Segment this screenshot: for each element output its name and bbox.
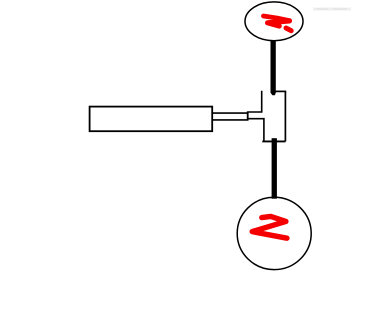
faint smudge (erased text remnant, top right) — [313, 8, 351, 11]
junction box bottom edge — [262, 140, 285, 142]
red squiggle marking inside source V1 (top bar) — [263, 16, 289, 21]
wire: channel bottom line, right segment + box lower-left edge — [249, 119, 264, 141]
junction tick in channel — [247, 111, 249, 120]
junction box right edge — [284, 91, 286, 141]
wire: channel top line, right segment + box upper-left edge — [249, 91, 262, 112]
wire from source V1 down to junction box — [271, 40, 276, 95]
wire: channel top line, left segment — [213, 112, 247, 114]
source V1 (top ellipse) — [245, 2, 303, 41]
resistor body R1 (large horizontal rectangle) — [90, 107, 213, 132]
wire: channel bottom line, left segment — [213, 119, 249, 121]
source V2 (bottom circle) — [237, 197, 311, 269]
red squiggle marking inside source V2 — [252, 216, 287, 238]
red squiggle marking inside source V1 (detached lower-right dash) — [286, 28, 291, 31]
red squiggle marking inside source V1 (middle reversal stroke) — [268, 21, 290, 26]
junction box top edge (right of wire only) — [271, 90, 287, 92]
wire from junction box down to source V2 — [272, 138, 277, 199]
